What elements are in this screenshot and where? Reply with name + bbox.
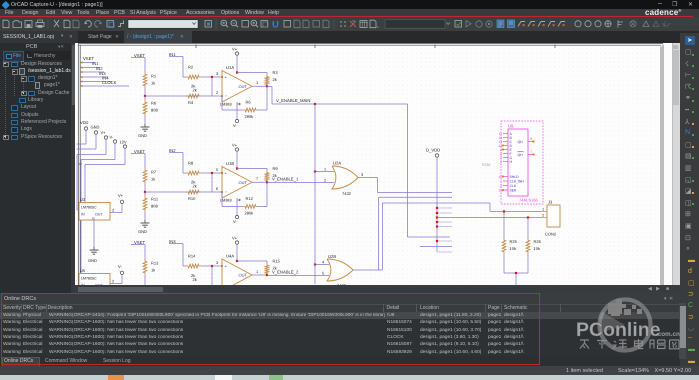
svg-text:R6: R6 — [246, 100, 252, 105]
wire — [144, 192, 146, 196]
node input junction — [211, 172, 213, 174]
wire — [183, 76, 186, 78]
port CLOCK — [80, 80, 129, 87]
svg-text:VSET: VSET — [134, 149, 145, 154]
svg-text:3: 3 — [216, 261, 218, 265]
svg-text:3: 3 — [216, 72, 218, 76]
wire — [183, 172, 186, 174]
svg-text:7: 7 — [531, 150, 533, 154]
svg-text:IN2: IN2 — [169, 148, 176, 153]
svg-text:QH: QH — [518, 140, 524, 144]
node output junction — [266, 181, 268, 183]
svg-text:U8: U8 — [508, 124, 514, 129]
wire — [237, 168, 267, 170]
svg-text:QH: QH — [518, 153, 524, 157]
node junction — [314, 170, 316, 172]
resistor R11 808 — [143, 196, 159, 212]
svg-text:7: 7 — [256, 177, 258, 181]
node junction — [314, 263, 316, 265]
svg-text:SHLD: SHLD — [510, 175, 520, 179]
wire — [266, 73, 268, 75]
ground below U3 — [88, 220, 99, 263]
svg-text:R15: R15 — [273, 259, 281, 264]
svg-text:6: 6 — [216, 187, 218, 191]
svg-text:V+: V+ — [101, 130, 107, 135]
ground — [138, 124, 150, 138]
svg-text:808: 808 — [151, 108, 158, 113]
wire to connector — [383, 203, 542, 270]
resistor R10 2k — [186, 180, 201, 202]
port IN3 — [80, 71, 108, 78]
svg-text:V-: V- — [118, 264, 122, 269]
power symbol V- — [81, 135, 117, 274]
svg-text:CLK: CLK — [510, 184, 517, 188]
svg-text:10k: 10k — [510, 246, 516, 251]
port IN2 — [80, 66, 104, 73]
wire U2A input 1 — [315, 171, 334, 173]
wire — [183, 265, 186, 267]
canvas horizontal scrollbar strip — [75, 285, 680, 293]
resistor R6 290k — [243, 100, 258, 120]
svg-text:SER: SER — [510, 189, 518, 193]
node V+ junction — [236, 167, 238, 169]
wire U2B output — [353, 197, 452, 270]
svg-text:4: 4 — [322, 261, 324, 265]
wire V_ENABLE_MAIN — [267, 87, 315, 105]
wire output — [252, 85, 267, 87]
svg-text:GND: GND — [91, 125, 100, 130]
svg-text:R10: R10 — [188, 196, 196, 201]
net label VSET3 VSET — [131, 240, 145, 259]
svg-text:U2A: U2A — [333, 161, 341, 166]
svg-text:V-: V- — [110, 135, 114, 140]
wire bottom join — [504, 254, 528, 285]
svg-text:P230: P230 — [482, 163, 490, 167]
shift register U8 74ALS166 — [498, 124, 538, 203]
cadence logo — [645, 8, 682, 17]
wire V_ENABLE_1 — [267, 182, 334, 184]
svg-text:1: 1 — [256, 270, 258, 274]
resistor R16 2k — [191, 273, 197, 282]
net label IN2 — [169, 148, 183, 173]
op-amp U1B LM383 — [220, 161, 252, 203]
svg-text:LM7805C: LM7805C — [81, 206, 97, 210]
svg-text:D_VDD: D_VDD — [426, 148, 440, 153]
wire output — [252, 274, 267, 276]
node divider junction — [144, 191, 146, 193]
power symbol V- — [233, 198, 239, 224]
power symbol 12V — [85, 140, 127, 203]
wire V_ENABLE_MAIN vertical — [314, 104, 316, 284]
wire — [211, 173, 213, 192]
svg-text:CLOCK: CLOCK — [102, 80, 117, 85]
svg-text:1k: 1k — [151, 177, 155, 182]
connector J3 CON2 — [541, 200, 560, 237]
node divider junction — [144, 95, 146, 97]
power symbol V+ — [232, 47, 239, 73]
svg-text:CON2: CON2 — [545, 232, 557, 237]
wire — [144, 96, 146, 100]
File / Hierarchy tabs — [2, 51, 71, 60]
net label VSET1 VSET — [131, 53, 145, 72]
svg-text:.com.cn: .com.cn — [656, 331, 680, 338]
resistor R2 — [186, 65, 201, 79]
svg-text:2: 2 — [112, 209, 114, 213]
svg-text:290k: 290k — [245, 114, 254, 119]
svg-text:2: 2 — [324, 179, 326, 183]
svg-text:2: 2 — [542, 214, 544, 218]
svg-text:VSET: VSET — [134, 240, 145, 245]
wire to op-amp inverting input — [145, 191, 222, 193]
node output junction — [266, 274, 268, 276]
wire — [237, 260, 267, 262]
svg-text:R11: R11 — [151, 197, 159, 202]
svg-text:GND: GND — [88, 258, 97, 263]
port IN4 — [80, 76, 112, 83]
tree guide lines — [5, 64, 6, 136]
svg-text:R25: R25 — [510, 239, 518, 244]
svg-text:CLK_INH: CLK_INH — [510, 180, 525, 184]
svg-text:1k: 1k — [151, 268, 155, 273]
svg-text:R14: R14 — [188, 254, 196, 259]
svg-text:7432: 7432 — [342, 191, 352, 196]
svg-text:V-: V- — [233, 123, 237, 128]
wire net to right — [315, 104, 450, 237]
panel scrollbar — [71, 43, 75, 293]
wire feedback — [221, 96, 223, 110]
voltage regulator U5 LM7805C — [79, 264, 124, 291]
power symbol VDD — [77, 120, 89, 144]
wire V_ENABLE_2 — [267, 275, 329, 277]
svg-text:R6: R6 — [151, 101, 157, 106]
svg-text:V+: V+ — [232, 47, 238, 52]
PConline watermark — [560, 295, 699, 365]
node junctions on D_VDD — [436, 207, 438, 242]
node junction J3 pin2 — [527, 216, 529, 218]
svg-text:U1B: U1B — [226, 161, 234, 166]
node input junction — [211, 76, 213, 78]
net label VSET2 VSET — [131, 149, 145, 168]
resistor R14 — [186, 254, 201, 268]
power symbol GND (circle) — [77, 125, 100, 150]
svg-text:3: 3 — [361, 173, 363, 177]
port IN1 — [80, 61, 100, 69]
wire U2A output — [358, 178, 452, 193]
svg-text:2: 2 — [112, 280, 114, 284]
resistor R8 — [186, 161, 201, 175]
svg-text:R1: R1 — [151, 74, 157, 79]
wire — [527, 218, 529, 239]
svg-text:290k: 290k — [245, 211, 254, 216]
svg-text:IN1: IN1 — [169, 52, 176, 57]
svg-text:15: 15 — [498, 175, 502, 179]
svg-text:R4: R4 — [188, 100, 194, 105]
power symbol V+ — [77, 130, 108, 210]
wire — [144, 212, 146, 220]
svg-text:OUT: OUT — [95, 213, 103, 217]
or-gate U2B 7432 — [322, 254, 353, 288]
node V+ junction — [236, 260, 238, 262]
svg-text:R13: R13 — [151, 261, 159, 266]
svg-text:12V: 12V — [120, 140, 127, 145]
resistor R26 10k — [526, 238, 542, 254]
resistor R4 2k — [186, 84, 201, 106]
svg-text:U5: U5 — [80, 268, 86, 273]
resistor R13 1k — [143, 259, 159, 275]
wire — [503, 212, 505, 239]
wire to op-amp inverting input — [145, 95, 222, 97]
svg-text:OUT: OUT — [239, 84, 248, 89]
svg-text:IN3: IN3 — [169, 239, 176, 244]
svg-text:GND: GND — [138, 229, 147, 234]
power symbol V+ — [232, 236, 239, 262]
svg-text:1k: 1k — [151, 81, 155, 86]
resistor R1 1k — [143, 72, 157, 88]
svg-text:U1A: U1A — [226, 65, 234, 70]
wire to J3 pin 2 — [437, 217, 541, 219]
DRC markers on U8 pins — [502, 145, 504, 191]
node junction — [515, 272, 517, 274]
svg-text:V_ENABLE_MAIN: V_ENABLE_MAIN — [276, 98, 310, 103]
power symbol D_VDD — [426, 148, 440, 253]
svg-text:2k: 2k — [193, 88, 197, 93]
node output junction — [266, 85, 268, 87]
wire — [266, 169, 268, 171]
svg-text:G: G — [92, 217, 95, 221]
node junction J3 pin1 — [503, 210, 505, 212]
svg-text:R3: R3 — [273, 70, 279, 75]
op-amp U1A LM383 — [220, 65, 252, 107]
svg-text:10: 10 — [498, 188, 502, 192]
svg-text:VSET: VSET — [134, 53, 145, 58]
svg-text:V-: V- — [233, 219, 237, 224]
svg-text:5: 5 — [322, 272, 324, 276]
node V+ junction — [236, 71, 238, 73]
svg-text:2: 2 — [500, 184, 502, 188]
selection box U8 — [501, 121, 543, 204]
svg-text:U2B: U2B — [328, 254, 336, 259]
svg-text:V+: V+ — [232, 143, 238, 148]
svg-text:R2: R2 — [188, 65, 194, 70]
svg-text:V+: V+ — [232, 236, 238, 241]
svg-text:V+: V+ — [118, 193, 124, 198]
or-gate U2A 7432 — [324, 161, 363, 197]
svg-text:2k: 2k — [193, 277, 197, 282]
wire — [144, 88, 146, 96]
svg-text:1: 1 — [324, 168, 326, 172]
node divider junction — [144, 286, 146, 288]
ground — [138, 220, 150, 234]
port VSET — [80, 56, 95, 64]
svg-text:U3: U3 — [80, 197, 86, 202]
svg-text:6: 6 — [500, 160, 502, 164]
resistor R15 2k — [265, 259, 281, 276]
op-amp U4A LM383 — [221, 254, 252, 292]
page border — [78, 43, 663, 285]
wire — [211, 266, 213, 285]
svg-text:808: 808 — [151, 204, 158, 209]
svg-text:IN: IN — [81, 213, 85, 217]
wire — [211, 77, 213, 96]
svg-text:10k: 10k — [534, 246, 540, 251]
resistor R25 10k — [502, 238, 518, 254]
svg-text:1: 1 — [542, 208, 544, 212]
svg-text:VDD: VDD — [80, 120, 89, 125]
canvas v scrollbar — [672, 43, 680, 285]
wire feedback — [221, 192, 223, 207]
resistor R9 2k — [265, 166, 278, 183]
resistor R12 290k — [243, 196, 258, 216]
svg-text:R12: R12 — [246, 196, 254, 201]
svg-text:U: U — [272, 20, 279, 31]
svg-text:U4A: U4A — [226, 254, 234, 259]
svg-text:GND: GND — [138, 133, 147, 138]
power symbol V- — [233, 102, 239, 128]
svg-text:OUT: OUT — [239, 273, 248, 278]
wire — [266, 261, 268, 263]
node input junction — [211, 265, 213, 267]
wire — [144, 116, 146, 124]
node junction — [314, 103, 316, 105]
svg-text:R8: R8 — [188, 161, 194, 166]
svg-text:5: 5 — [216, 168, 218, 172]
resistor R7 1k — [143, 168, 157, 184]
svg-text:R9: R9 — [273, 166, 279, 171]
voltage regulator U3 LM7805C — [79, 193, 124, 221]
svg-text:2k: 2k — [273, 77, 277, 82]
svg-text:PConline: PConline — [576, 319, 661, 341]
wire — [144, 184, 146, 192]
resistor R6 808 — [143, 100, 158, 116]
svg-text:2k: 2k — [193, 184, 197, 189]
wire U2B input 4 — [315, 264, 329, 266]
wire — [144, 275, 146, 287]
net label IN3 — [169, 239, 183, 266]
svg-text:R26: R26 — [534, 239, 542, 244]
svg-text:OUT: OUT — [239, 180, 248, 185]
red annotation line under menu — [0, 16, 693, 18]
svg-text:V_ENABLE_2: V_ENABLE_2 — [272, 270, 299, 275]
net label IN1 — [169, 52, 183, 77]
power symbol V+ — [232, 143, 239, 169]
svg-text:8: 8 — [531, 137, 533, 141]
svg-text:LM7805C: LM7805C — [81, 277, 97, 281]
svg-text:74ALS166: 74ALS166 — [519, 198, 538, 203]
wire output — [252, 181, 267, 183]
wire stubs on D_VDD net — [420, 208, 452, 252]
svg-text:2: 2 — [216, 91, 218, 95]
svg-text:R7: R7 — [151, 170, 157, 175]
resistor R3 2k — [265, 70, 278, 87]
panel header — [26, 44, 37, 50]
svg-text:1: 1 — [500, 179, 502, 183]
svg-text:1: 1 — [256, 81, 258, 85]
svg-text:V_ENABLE_1: V_ENABLE_1 — [272, 177, 299, 182]
wire to op-amp inverting input — [145, 286, 222, 288]
wire — [237, 72, 267, 74]
